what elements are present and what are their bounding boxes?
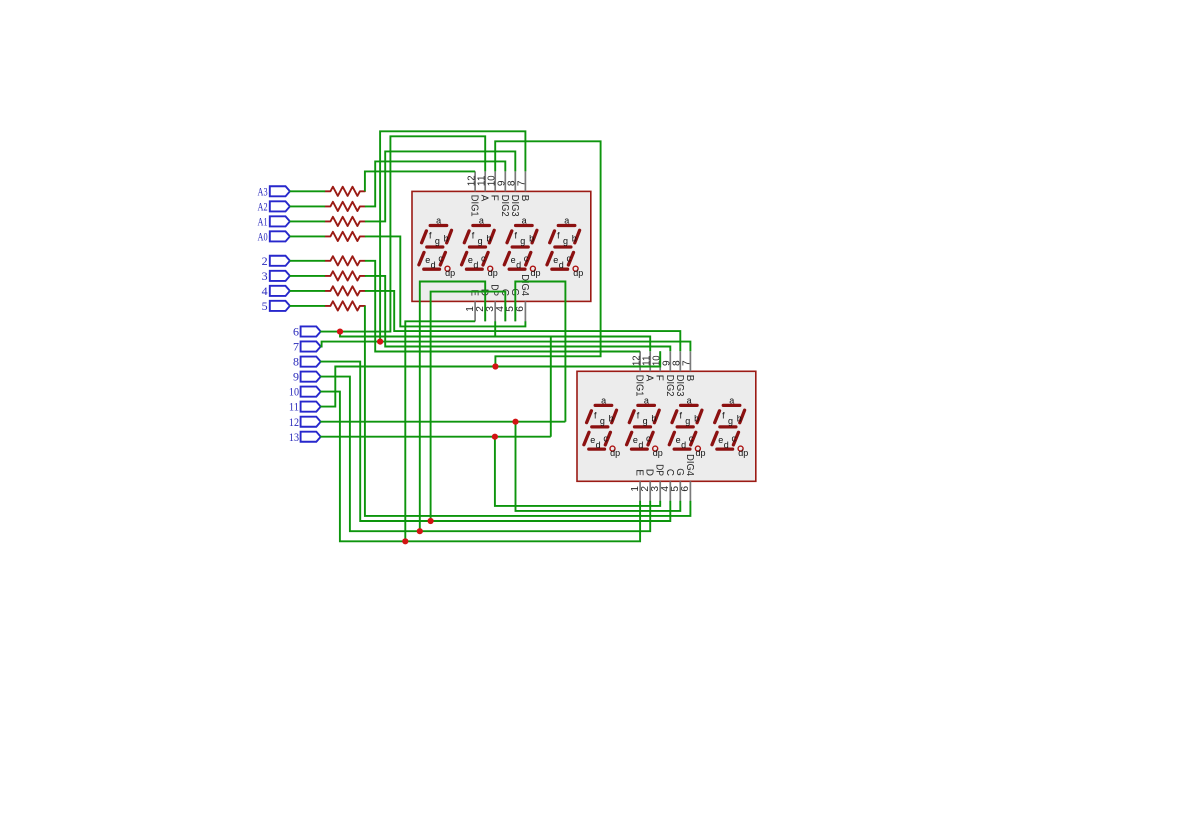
connector pin 8 — [301, 357, 321, 367]
svg-text:c: c — [481, 254, 486, 264]
wire 5 lead — [290, 305, 325, 307]
resistor R-4 — [325, 286, 365, 295]
svg-text:A: A — [644, 375, 655, 382]
connector pin 9 — [301, 372, 321, 382]
svg-text:6: 6 — [680, 486, 691, 492]
svg-text:dp: dp — [738, 448, 748, 458]
svg-text:A2: A2 — [258, 200, 268, 214]
wire U1 pin1 segment-E branch — [405, 321, 475, 541]
wire A1 lead — [290, 220, 325, 222]
connector pin 11 — [301, 402, 321, 412]
connector pin A1 — [270, 216, 290, 226]
svg-text:13: 13 — [289, 430, 299, 444]
svg-text:c: c — [524, 254, 529, 264]
junction segment-DP — [492, 434, 498, 440]
wire 6 segment-A to junction — [320, 331, 340, 333]
svg-text:d: d — [473, 260, 478, 270]
svg-text:DP: DP — [489, 284, 500, 296]
svg-text:a: a — [522, 216, 527, 226]
wire A0 lead — [290, 235, 325, 237]
svg-text:6: 6 — [515, 306, 526, 312]
svg-text:d: d — [559, 260, 564, 270]
resistor R-A3 — [325, 187, 365, 196]
svg-text:DIG1: DIG1 — [469, 195, 480, 217]
connector pin 6 — [301, 326, 321, 336]
svg-text:a: a — [687, 396, 692, 406]
wire segment-DP to U2 pin3 — [495, 437, 660, 506]
svg-text:b: b — [694, 413, 699, 423]
svg-text:e: e — [553, 255, 558, 265]
wire 7 segment-B to U2 pin7 — [320, 342, 690, 352]
svg-text:g: g — [600, 416, 605, 426]
svg-text:dp: dp — [653, 448, 663, 458]
svg-text:e: e — [633, 435, 638, 445]
connector pin 5 — [270, 301, 290, 311]
svg-text:b: b — [486, 233, 491, 243]
svg-text:d: d — [681, 440, 686, 450]
svg-text:G: G — [509, 288, 520, 296]
svg-text:c: c — [438, 254, 443, 264]
svg-text:A: A — [479, 195, 490, 202]
svg-text:g: g — [520, 236, 525, 246]
svg-text:b: b — [572, 233, 577, 243]
svg-text:g: g — [563, 236, 568, 246]
svg-text:7: 7 — [517, 180, 528, 186]
svg-text:e: e — [590, 435, 595, 445]
svg-text:7: 7 — [293, 340, 299, 354]
svg-text:G: G — [674, 468, 685, 476]
7-segment display U2 (4-digit, bottom) — [577, 351, 756, 501]
svg-text:b: b — [444, 233, 449, 243]
wire 2 lead — [290, 260, 325, 262]
svg-text:e: e — [425, 255, 430, 265]
svg-text:d: d — [516, 260, 521, 270]
wire segment-G to U1 pin5 — [515, 282, 565, 422]
svg-text:A0: A0 — [258, 230, 268, 244]
svg-text:A1: A1 — [258, 215, 268, 229]
svg-text:c: c — [566, 254, 571, 264]
wire U1 pin4 segment-C branch — [431, 292, 506, 521]
connector pin 3 — [270, 271, 290, 281]
svg-text:DIG1: DIG1 — [634, 375, 645, 397]
connector pin 7 — [301, 341, 321, 351]
wire 11 segment-F to U2 pin10 — [320, 351, 660, 406]
svg-text:a: a — [601, 396, 606, 406]
junction segment-B — [377, 339, 383, 345]
svg-text:F: F — [489, 195, 500, 201]
svg-text:c: c — [603, 434, 608, 444]
wire 8 segment-C to U2 pin4 — [320, 362, 670, 521]
svg-text:A3: A3 — [258, 184, 268, 198]
wire 10 segment-E to U2 pin1 — [320, 392, 640, 542]
wire 5 to U2 pin6 — [365, 306, 691, 516]
wire A3 to U1 pin12 — [365, 171, 475, 191]
resistor R-A1 — [325, 217, 365, 226]
svg-text:d: d — [638, 440, 643, 450]
wire segment-A to U2 pin11 — [340, 332, 650, 352]
svg-text:DIG3: DIG3 — [509, 195, 520, 217]
svg-text:B: B — [519, 195, 530, 202]
junction segment-D — [417, 528, 423, 534]
svg-text:F: F — [654, 375, 665, 381]
connector pin 4 — [270, 286, 290, 296]
wire segment-A to U1 pin11 — [340, 136, 485, 331]
junction segment-A at pin 6 — [337, 329, 343, 335]
svg-text:dp: dp — [573, 268, 583, 278]
svg-text:dp: dp — [695, 448, 705, 458]
svg-text:g: g — [435, 236, 440, 246]
svg-text:6: 6 — [293, 325, 299, 339]
svg-text:DIG3: DIG3 — [674, 375, 685, 397]
svg-text:b: b — [651, 413, 656, 423]
svg-text:b: b — [737, 413, 742, 423]
resistor R-2 — [325, 256, 365, 265]
connector pin A0 — [270, 231, 290, 241]
svg-text:a: a — [729, 396, 734, 406]
resistor R-A0 — [325, 232, 365, 241]
svg-text:DP: DP — [654, 464, 665, 476]
svg-text:E: E — [634, 469, 645, 476]
wire 13 segment-DP — [320, 436, 551, 438]
svg-text:a: a — [436, 216, 441, 226]
svg-text:g: g — [478, 236, 483, 246]
connector pin 2 — [270, 256, 290, 266]
svg-text:a: a — [644, 396, 649, 406]
svg-text:2: 2 — [262, 254, 268, 268]
svg-text:C: C — [664, 469, 675, 476]
svg-text:DIG4: DIG4 — [519, 274, 530, 296]
wire A3 lead — [290, 190, 325, 192]
svg-text:9: 9 — [293, 370, 299, 384]
svg-text:DIG2: DIG2 — [664, 375, 675, 397]
svg-text:B: B — [684, 375, 695, 382]
junction segment-F — [492, 363, 498, 369]
wire segment-B to U1 pin7 — [380, 131, 525, 341]
resistor R-3 — [325, 271, 365, 280]
svg-text:a: a — [479, 216, 484, 226]
svg-text:e: e — [718, 435, 723, 445]
svg-text:g: g — [643, 416, 648, 426]
svg-text:11: 11 — [289, 400, 299, 414]
wire segment-DP to U1 pin3 — [495, 321, 551, 437]
svg-text:DIG2: DIG2 — [499, 195, 510, 217]
wire A2 lead — [290, 205, 325, 207]
svg-text:a: a — [564, 216, 569, 226]
junction segment-G — [512, 419, 518, 425]
svg-text:5: 5 — [262, 299, 268, 313]
wire segment-F to U1 pin10 — [495, 141, 600, 366]
wire 12 segment-G — [320, 421, 565, 423]
svg-text:E: E — [469, 289, 480, 296]
wire A1 to U1 pin8 — [365, 151, 515, 221]
resistor R-A2 — [325, 202, 365, 211]
svg-text:10: 10 — [289, 385, 299, 399]
7-segment display U1 (4-digit, top) — [412, 171, 591, 321]
wire A0 to U1 pin6 — [365, 236, 526, 326]
svg-text:e: e — [676, 435, 681, 445]
svg-text:d: d — [431, 260, 436, 270]
svg-text:c: c — [689, 434, 694, 444]
wire 3 to U2 pin9 — [365, 276, 670, 351]
wire 9 segment-D to U2 pin2 — [320, 377, 650, 532]
svg-text:DIG4: DIG4 — [684, 454, 695, 476]
svg-text:12: 12 — [289, 415, 299, 429]
svg-text:3: 3 — [262, 269, 268, 283]
svg-text:8: 8 — [293, 355, 299, 369]
wire 4 lead — [290, 290, 325, 292]
wire 3 lead — [290, 275, 325, 277]
svg-text:c: c — [731, 434, 736, 444]
connector pin A2 — [270, 201, 290, 211]
wire U1 pin2 segment-D branch — [420, 282, 485, 532]
svg-text:d: d — [724, 440, 729, 450]
resistor R-5 — [325, 301, 365, 310]
svg-text:dp: dp — [530, 268, 540, 278]
wire A2 to U1 pin9 — [365, 161, 505, 206]
connector pin 13 — [301, 432, 321, 442]
svg-text:g: g — [728, 416, 733, 426]
wire 4 to U2 pin8 — [365, 291, 680, 351]
svg-text:e: e — [511, 255, 516, 265]
svg-text:dp: dp — [445, 268, 455, 278]
svg-text:D: D — [644, 469, 655, 476]
svg-text:4: 4 — [262, 284, 268, 298]
connector pin 10 — [301, 387, 321, 397]
svg-text:e: e — [468, 255, 473, 265]
svg-text:g: g — [685, 416, 690, 426]
svg-text:d: d — [596, 440, 601, 450]
svg-text:7: 7 — [682, 360, 693, 366]
wire 2 to U2 pin12 — [365, 261, 640, 352]
junction segment-C — [428, 518, 434, 524]
connector pin A3 — [270, 186, 290, 196]
svg-text:b: b — [609, 413, 614, 423]
svg-text:b: b — [529, 233, 534, 243]
svg-text:c: c — [646, 434, 651, 444]
connector pin 12 — [301, 417, 321, 427]
svg-text:dp: dp — [488, 268, 498, 278]
svg-text:dp: dp — [610, 448, 620, 458]
wire segment-G to U2 pin5 — [516, 422, 681, 511]
junction segment-E — [402, 538, 408, 544]
